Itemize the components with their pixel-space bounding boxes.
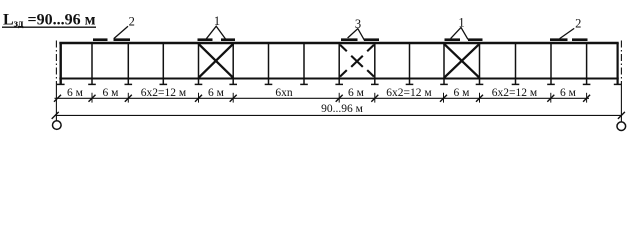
dashed X brace bay 339-375 xyxy=(340,45,374,77)
column A11 xyxy=(406,43,414,84)
tie bars pair above bay 92-128 xyxy=(93,38,130,41)
svg-text:6х2=12 м: 6х2=12 м xyxy=(386,87,432,99)
title Lzd xyxy=(2,12,96,30)
svg-text:2: 2 xyxy=(129,15,135,29)
column A4 xyxy=(160,43,168,84)
column A15 xyxy=(547,43,555,84)
label 2 right xyxy=(560,16,582,38)
column A2 xyxy=(88,43,96,84)
label 2 left xyxy=(114,15,135,39)
svg-text:6 м: 6 м xyxy=(454,87,471,99)
column A5 xyxy=(195,43,203,84)
column A16 xyxy=(583,43,591,84)
column A8 xyxy=(300,43,308,84)
X brace bay 444-479 xyxy=(444,44,480,78)
svg-text:6х2=12 м: 6х2=12 м xyxy=(141,87,187,99)
label 3 xyxy=(348,17,365,40)
svg-text:6 м: 6 м xyxy=(103,87,120,99)
column A12 xyxy=(440,43,448,84)
label 1 left xyxy=(206,14,226,40)
column A6 xyxy=(229,43,237,84)
svg-text:6 м: 6 м xyxy=(208,87,225,99)
dimension line 1 xyxy=(55,97,590,99)
svg-text:2: 2 xyxy=(575,16,581,30)
column A3 xyxy=(125,43,133,84)
tie bars pair above bay 444-479 xyxy=(445,38,483,41)
column A9 xyxy=(335,43,343,84)
tie bars pair above bay 198-233 xyxy=(198,38,236,41)
right axis line xyxy=(620,41,622,122)
bottom chord xyxy=(59,78,618,80)
column A1 (left edge) xyxy=(57,43,65,84)
dimension line 2 xyxy=(55,114,621,116)
right axis circle xyxy=(617,122,626,131)
svg-text:1: 1 xyxy=(214,14,220,28)
top chord xyxy=(59,42,618,45)
X brace bay 198-233 xyxy=(199,44,234,78)
dim2 tick left xyxy=(52,112,59,119)
column A10 xyxy=(371,43,379,84)
left axis circle xyxy=(53,121,62,130)
svg-text:6х2=12 м: 6х2=12 м xyxy=(492,87,538,99)
svg-text:6 м: 6 м xyxy=(348,87,365,99)
label 1 right xyxy=(451,16,468,40)
dim1 tick marks xyxy=(54,95,590,102)
tie bars pair above bay 551-587 xyxy=(550,38,588,41)
dim1 extension lines xyxy=(92,93,587,103)
tie bars pair above bay 339-375 xyxy=(341,38,379,41)
column A13 xyxy=(476,43,484,84)
dim2 tick right xyxy=(618,112,625,119)
column A7 xyxy=(265,43,273,84)
left axis line xyxy=(55,41,57,121)
svg-text:90...96 м: 90...96 м xyxy=(321,103,364,115)
column A14 xyxy=(512,43,520,84)
svg-text:6хn: 6хn xyxy=(275,87,293,99)
dim1 texts xyxy=(67,87,577,99)
column A17 (right edge) xyxy=(614,43,622,84)
svg-text:6 м: 6 м xyxy=(560,87,577,99)
svg-text:6 м: 6 м xyxy=(67,87,84,99)
